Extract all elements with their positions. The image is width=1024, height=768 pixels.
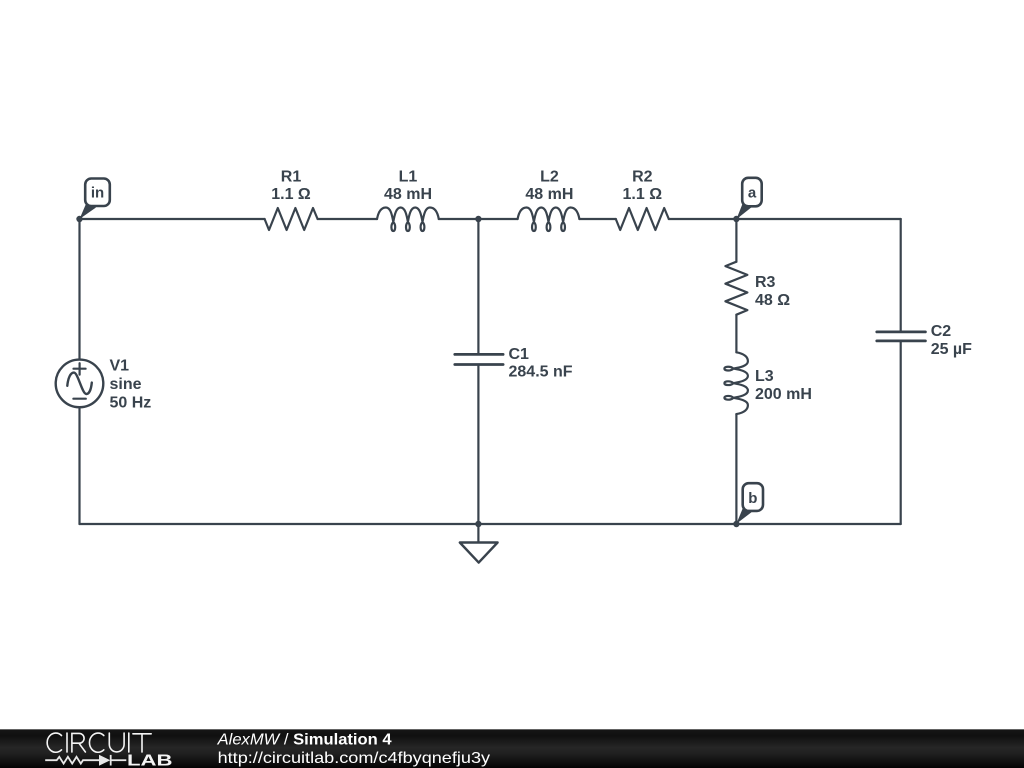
capacitor C2 bottom plate xyxy=(877,339,926,342)
svg-text:LAB: LAB xyxy=(127,753,173,768)
V1 sine wave xyxy=(67,373,92,394)
wire right rail upper (to C2) xyxy=(900,219,902,331)
wire bottom rail xyxy=(80,523,901,525)
V1 minus sign xyxy=(73,398,85,400)
wire L2 to R2 xyxy=(579,218,615,220)
resistor R1 xyxy=(265,208,318,230)
capacitor C1 top plate xyxy=(455,353,503,356)
inductor L3 xyxy=(724,352,748,414)
capacitor C1 bottom plate xyxy=(455,363,503,366)
node a flag tail xyxy=(736,201,752,220)
wire top-left: node in to R1 xyxy=(80,218,265,220)
capacitor C2 top plate xyxy=(877,330,926,333)
svg-text:AlexMW / Simulation 4: AlexMW / Simulation 4 xyxy=(217,732,392,749)
V1 plus sign xyxy=(74,363,86,374)
junction dot node a xyxy=(733,216,739,222)
junction dot ground xyxy=(475,521,481,527)
logo CIRCUIT letters xyxy=(47,733,151,752)
wire L1 to center node xyxy=(439,218,518,220)
wire left rail upper (in to V1) xyxy=(78,219,80,360)
inductor L2 xyxy=(518,208,580,232)
resistor R3 xyxy=(725,262,747,315)
wire right rail lower (C2 to bottom) xyxy=(900,342,902,524)
node b flag box xyxy=(743,483,763,511)
wire R2 to node a xyxy=(669,218,737,220)
node a flag box xyxy=(742,178,762,207)
inductor L1 xyxy=(377,208,439,232)
wire center rail upper (to C1) xyxy=(477,219,479,353)
node b flag tail xyxy=(736,507,751,524)
wire node a to top-right corner xyxy=(736,218,900,220)
junction dot node b xyxy=(733,521,739,527)
wire node a to R3 xyxy=(735,219,737,262)
logo diode triangle xyxy=(99,755,110,766)
wire L3 to node b xyxy=(735,414,737,524)
wire R3 to L3 xyxy=(735,315,737,353)
node in flag box xyxy=(85,179,110,207)
voltage source V1 circle xyxy=(56,360,104,408)
junction dot center top xyxy=(475,216,481,222)
junction dot node in xyxy=(76,216,82,222)
ground stub xyxy=(477,524,479,543)
node in flag tail xyxy=(80,202,97,220)
footer bar xyxy=(0,729,1024,768)
logo resistor-diode squiggle xyxy=(45,755,126,766)
wire center rail lower (C1 to bottom) xyxy=(477,366,479,524)
wire R1 to L1 xyxy=(318,218,377,220)
svg-text:http://circuitlab.com/c4fbyqne: http://circuitlab.com/c4fbyqnefju3y xyxy=(218,750,491,767)
wire left rail lower (V1 to bottom) xyxy=(78,407,80,524)
ground triangle xyxy=(460,543,498,563)
resistor R2 xyxy=(616,208,669,230)
